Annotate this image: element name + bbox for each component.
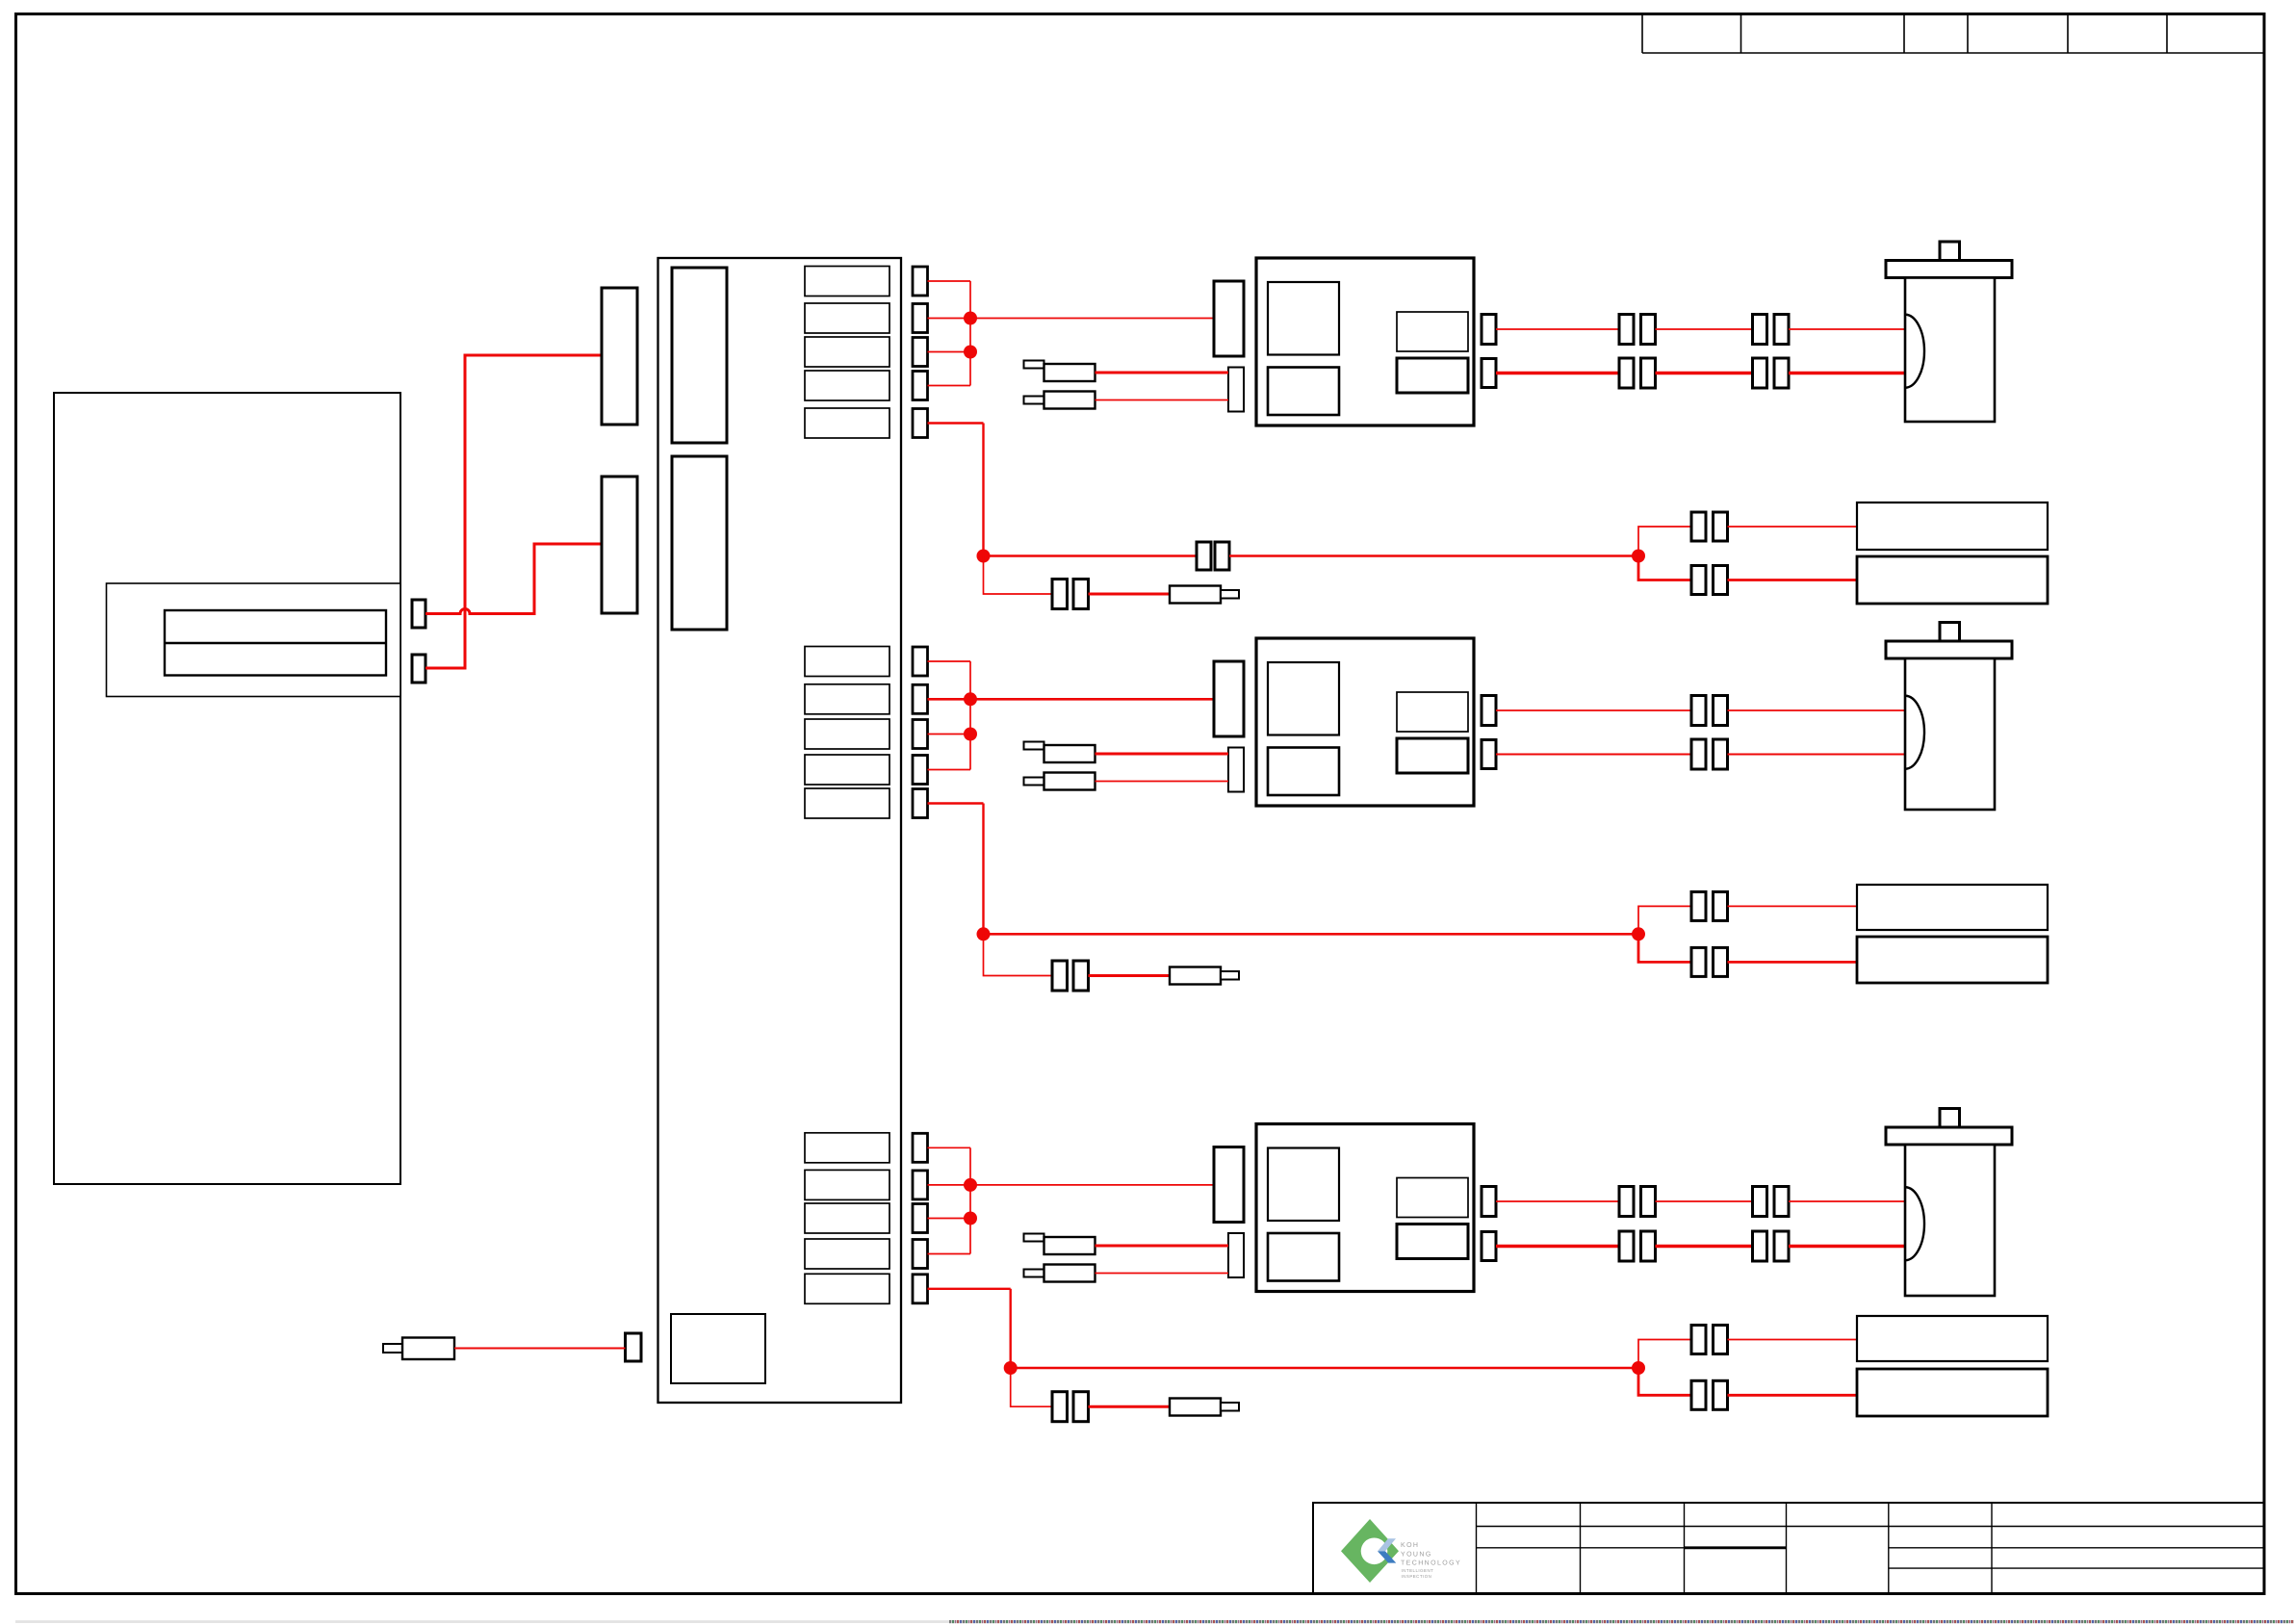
- G1 sensor branch down: [1638, 556, 1691, 580]
- G3 service plug tab: [1221, 1403, 1239, 1411]
- G3 driver relay block A: [1268, 1148, 1339, 1222]
- G3 plug P2 tab: [1024, 1270, 1044, 1277]
- G1 vertical bus: [969, 281, 971, 386]
- G2 plug P1 body: [1044, 745, 1095, 762]
- G3 board edge pin 5: [913, 1275, 928, 1303]
- G2 inline connector pair1b (wire2): [1714, 739, 1728, 769]
- G1 inline connector pair1a (wire2): [1619, 358, 1634, 388]
- G2 driver output pin OUT2: [1482, 740, 1496, 769]
- G1 wire to sensor S1: [1728, 526, 1858, 528]
- G3 plug branch inline connector b: [1073, 1392, 1089, 1422]
- G2 wire pin4 to bus: [928, 769, 971, 771]
- I/O board aux module: [671, 1314, 765, 1383]
- G3 inline connector pair2b (wire2): [1774, 1231, 1789, 1261]
- G1 inline connector pair2b (wire1): [1774, 315, 1789, 345]
- G2 wire pin2 to bus: [928, 698, 971, 701]
- G1 sensor junction right: [1632, 550, 1645, 563]
- G2 driver output block A: [1397, 692, 1468, 732]
- G2 inline connector pair1a (wire2): [1691, 739, 1706, 769]
- G3 wire pin5 drop to sensor bus: [1009, 1289, 1011, 1368]
- G2 plug P2 body: [1044, 773, 1095, 790]
- G2 bus to driver connector CN1: [970, 698, 1214, 701]
- G1 driver output pin OUT1: [1482, 315, 1496, 345]
- G2 plug branch inline connector b: [1073, 961, 1089, 991]
- G3 motor M3 shaft stub: [1940, 1109, 1960, 1128]
- G1 motor driver unit: [1256, 258, 1474, 425]
- G1 sensor upper inline connector a: [1691, 512, 1706, 541]
- G3 bus to driver connector CN1: [970, 1184, 1214, 1186]
- G1 inline connector pair2b (wire2): [1774, 358, 1789, 388]
- wire net-B from J2 to power inlet U-A: [425, 355, 602, 668]
- G2 inline connector pair1b (wire1): [1714, 696, 1728, 726]
- G2 sensor bus: [984, 933, 1639, 936]
- G3 sensor junction left: [1004, 1361, 1018, 1375]
- G3 plug P1 body: [1044, 1237, 1095, 1254]
- G1 plug P1 tab: [1024, 361, 1044, 369]
- G2 inline connector pair1a (wire1): [1691, 696, 1706, 726]
- G3 motor wire2 segment 2: [1656, 1245, 1753, 1248]
- G1 sensor S2: [1857, 556, 2048, 604]
- G3 sensor bus: [1011, 1367, 1638, 1370]
- G2 junction node at pin3: [964, 728, 977, 741]
- Koh Young logo text: [1401, 1542, 1461, 1579]
- G1 service plug body: [1170, 586, 1221, 604]
- plug P0 tab: [383, 1344, 402, 1353]
- G1 I/O channel label box 3: [805, 337, 889, 367]
- power inlet module U-B: [602, 477, 637, 613]
- G2 motor wire1 final segment: [1728, 709, 1906, 711]
- G3 vertical bus: [969, 1147, 971, 1253]
- G1 driver output block A: [1397, 312, 1468, 351]
- G2 sensor branch up: [1638, 906, 1691, 934]
- G3 sensor upper inline connector b: [1714, 1326, 1728, 1354]
- connector J3 on I/O board left edge: [626, 1333, 642, 1361]
- title strip table top-right: [1642, 14, 2263, 54]
- G3 wire pin3 to bus: [928, 1218, 971, 1220]
- bottom fine-print strip (illegible): [15, 1620, 2294, 1623]
- svg-text:KOH: KOH: [1401, 1542, 1419, 1549]
- svg-text:YOUNG: YOUNG: [1401, 1551, 1432, 1558]
- G2 driver output block B: [1397, 738, 1468, 773]
- G2 junction node at pin2: [964, 692, 977, 706]
- G1 driver input connector CN2: [1228, 368, 1244, 412]
- G2 wire pin5 drop to sensor bus: [982, 804, 984, 935]
- G1 sensor branch up: [1638, 527, 1691, 556]
- G2 driver output pin OUT1: [1482, 696, 1496, 726]
- control PC enclosure: [54, 393, 400, 1184]
- G3 sensor plug branch: [1011, 1368, 1052, 1406]
- G2 sensor junction right: [1632, 927, 1645, 941]
- G2 sensor junction left: [977, 927, 991, 941]
- G3 sensor S5: [1857, 1316, 2048, 1361]
- G3 sensor branch up: [1638, 1340, 1691, 1369]
- G1 sensor bus right segment: [1229, 554, 1638, 557]
- G3 board edge pin 2: [913, 1171, 928, 1199]
- G3 motor M3 cable boss arc: [1905, 1187, 1924, 1260]
- G2 motor M2 mounting flange: [1886, 641, 2012, 658]
- G3 wire pin5 out: [928, 1288, 1011, 1290]
- G3 motor driver unit: [1256, 1124, 1474, 1292]
- G1 sensor plug branch: [984, 556, 1053, 595]
- G1 driver input connector CN1: [1214, 281, 1244, 356]
- G1 wire plug P2 to CN2 (thin): [1095, 400, 1229, 401]
- G1 inline connector pair2a (wire1): [1753, 315, 1767, 345]
- G1 wire to service plug: [1089, 593, 1171, 596]
- G2 I/O channel label box 1: [805, 647, 889, 677]
- G3 sensor lower inline connector a: [1691, 1380, 1706, 1409]
- G3 plug P1 tab: [1024, 1234, 1044, 1242]
- G3 I/O channel label box 3: [805, 1203, 889, 1233]
- G1 motor wire1 final segment: [1789, 328, 1905, 330]
- G2 I/O channel label box 5: [805, 788, 889, 818]
- G1 driver output block B: [1397, 358, 1468, 393]
- wire net-A from J1 to power inlet U-B (hop over net-B): [425, 544, 602, 614]
- G3 motor M3 body: [1905, 1145, 1995, 1296]
- G2 wire plug P1 to CN2 (thick): [1095, 753, 1229, 756]
- G3 I/O channel label box 1: [805, 1133, 889, 1163]
- G1 driver relay block A: [1268, 282, 1339, 355]
- G2 sensor upper inline connector b: [1714, 891, 1728, 920]
- G1 plug branch inline connector a: [1052, 580, 1068, 609]
- G1 board edge pin 1: [913, 267, 928, 296]
- G1 board edge pin 4: [913, 372, 928, 400]
- G1 service plug tab: [1221, 590, 1239, 599]
- G1 plug P1 body: [1044, 364, 1095, 381]
- G2 motor M2 shaft stub: [1940, 623, 1960, 642]
- G2 motor wire2 segment 1: [1496, 754, 1691, 756]
- G2 motor wire1 segment 1: [1496, 709, 1691, 711]
- G1 wire pin5 drop to sensor bus: [982, 424, 984, 556]
- G1 I/O channel label box 1: [805, 267, 889, 296]
- G3 motor wire2 final segment: [1789, 1245, 1905, 1248]
- G3 motor M3 mounting flange: [1886, 1127, 2012, 1145]
- G3 sensor junction right: [1632, 1361, 1645, 1375]
- G1 inline connector pair1b (wire2): [1641, 358, 1656, 388]
- G3 driver output pin OUT2: [1482, 1232, 1496, 1261]
- G3 inline connector pair2a (wire2): [1753, 1231, 1767, 1261]
- G3 inline connector pair1a (wire1): [1619, 1187, 1634, 1217]
- G1 driver output pin OUT2: [1482, 359, 1496, 388]
- G2 I/O channel label box 2: [805, 684, 889, 714]
- G1 sensor S1: [1857, 503, 2048, 550]
- G2 motor M2 body: [1905, 658, 1995, 810]
- G1 plug branch inline connector b: [1073, 580, 1089, 609]
- power inlet module U-A: [602, 288, 637, 425]
- G3 wire plug P1 to CN2 (thick): [1095, 1245, 1229, 1248]
- G1 sensor bus inline connector b: [1215, 542, 1229, 570]
- G1 inline connector pair1a (wire1): [1619, 315, 1634, 345]
- G3 driver input connector CN2: [1228, 1233, 1244, 1277]
- G2 wire to service plug: [1089, 974, 1171, 977]
- front panel cutout: [107, 583, 401, 697]
- G3 sensor S6: [1857, 1369, 2048, 1416]
- display slot divider: [165, 642, 386, 644]
- display slot (two bays): [165, 610, 386, 676]
- G1 junction node at pin3: [964, 346, 977, 359]
- G1 board edge pin 2: [913, 304, 928, 333]
- G2 driver input connector CN2: [1228, 748, 1244, 792]
- G1 I/O channel label box 2: [805, 303, 889, 333]
- G3 wire pin2 to bus: [928, 1184, 971, 1186]
- title block table: [1313, 1503, 2264, 1594]
- G3 motor wire2 segment 1: [1496, 1245, 1619, 1248]
- G1 junction node at pin2: [964, 312, 977, 325]
- G2 motor M2 cable boss arc: [1905, 696, 1924, 769]
- G1 I/O channel label box 5: [805, 408, 889, 438]
- G2 service plug tab: [1221, 971, 1239, 980]
- G1 inline connector pair1b (wire1): [1641, 315, 1656, 345]
- G3 wire pin4 to bus: [928, 1253, 971, 1255]
- G2 wire to sensor S3: [1728, 905, 1858, 907]
- G1 motor M1 mounting flange: [1886, 261, 2012, 278]
- G1 wire pin2 to bus: [928, 318, 971, 320]
- G3 inline connector pair1b (wire2): [1641, 1231, 1656, 1261]
- G3 junction node at pin3: [964, 1212, 977, 1225]
- G2 motor wire2 final segment: [1728, 754, 1906, 756]
- G2 sensor upper inline connector a: [1691, 891, 1706, 920]
- G1 motor wire2 segment 2: [1656, 372, 1753, 374]
- G1 sensor upper inline connector b: [1714, 512, 1728, 541]
- G1 wire pin4 to bus: [928, 385, 971, 387]
- G3 driver input connector CN1: [1214, 1147, 1244, 1223]
- G3 I/O channel label box 4: [805, 1239, 889, 1269]
- G2 board edge pin 1: [913, 647, 928, 676]
- G2 sensor branch down: [1638, 934, 1691, 962]
- G3 plug P2 body: [1044, 1265, 1095, 1282]
- G2 I/O channel label box 3: [805, 719, 889, 749]
- G2 sensor S4: [1857, 937, 2048, 983]
- G1 plug P2 body: [1044, 392, 1095, 409]
- G2 motor driver unit: [1256, 638, 1474, 806]
- G2 wire plug P2 to CN2 (thin): [1095, 781, 1229, 783]
- G3 wire pin1 to bus: [928, 1147, 971, 1148]
- G3 motor wire1 segment 1: [1496, 1200, 1619, 1202]
- G1 motor wire1 segment 1: [1496, 328, 1619, 330]
- G3 driver output pin OUT1: [1482, 1187, 1496, 1217]
- G3 inline connector pair2b (wire1): [1774, 1187, 1789, 1217]
- connector J1 on PC: [412, 600, 425, 628]
- G2 I/O channel label box 4: [805, 755, 889, 785]
- G1 sensor bus inline connector a: [1197, 542, 1211, 570]
- G2 wire pin5 out: [928, 802, 984, 804]
- G3 I/O channel label box 2: [805, 1170, 889, 1199]
- I/O board power block PWR1: [672, 268, 727, 443]
- G3 driver output block A: [1397, 1178, 1468, 1218]
- G1 board edge pin 5: [913, 409, 928, 438]
- G1 wire pin5 out: [928, 422, 984, 424]
- G3 junction node at pin2: [964, 1178, 977, 1192]
- G2 wire pin1 to bus: [928, 660, 971, 662]
- G2 board edge pin 3: [913, 720, 928, 749]
- G1 wire pin1 to bus: [928, 280, 971, 282]
- G3 inline connector pair1a (wire2): [1619, 1231, 1634, 1261]
- G1 motor M1 cable boss arc: [1905, 315, 1924, 388]
- G2 service plug body: [1170, 967, 1221, 985]
- main I/O board: [658, 258, 902, 1403]
- G2 wire to sensor S4: [1728, 961, 1858, 964]
- G3 sensor branch down: [1638, 1368, 1691, 1395]
- G1 plug P2 tab: [1024, 397, 1044, 404]
- G2 sensor plug branch: [984, 934, 1053, 975]
- G3 wire to sensor S6: [1728, 1394, 1858, 1397]
- G1 motor wire2 final segment: [1789, 372, 1905, 374]
- G2 board edge pin 5: [913, 789, 928, 818]
- plug P0 body: [402, 1338, 454, 1360]
- G3 board edge pin 1: [913, 1133, 928, 1162]
- G3 inline connector pair2a (wire1): [1753, 1187, 1767, 1217]
- G2 sensor S3: [1857, 885, 2048, 930]
- G3 board edge pin 3: [913, 1204, 928, 1233]
- svg-text:TECHNOLOGY: TECHNOLOGY: [1401, 1560, 1461, 1567]
- G1 wire to sensor S2: [1728, 579, 1858, 581]
- G1 motor M1 body: [1905, 278, 1995, 423]
- G1 motor M1 shaft stub: [1940, 242, 1960, 261]
- G3 motor wire1 segment 2: [1656, 1200, 1753, 1202]
- G1 motor wire1 segment 2: [1656, 328, 1753, 330]
- svg-text:INSPECTION: INSPECTION: [1402, 1574, 1432, 1579]
- G2 board edge pin 4: [913, 756, 928, 785]
- G1 driver relay block B: [1268, 368, 1339, 416]
- G2 board edge pin 2: [913, 684, 928, 713]
- G2 plug P1 tab: [1024, 742, 1044, 750]
- G2 plug branch inline connector a: [1052, 961, 1068, 991]
- svg-text:INTELLIGENT: INTELLIGENT: [1402, 1568, 1434, 1573]
- G2 wire pin3 to bus: [928, 734, 971, 735]
- G1 wire pin3 to bus: [928, 351, 971, 353]
- G3 plug branch inline connector a: [1052, 1392, 1068, 1422]
- G1 inline connector pair2a (wire2): [1753, 358, 1767, 388]
- G1 sensor lower inline connector b: [1714, 566, 1728, 595]
- G2 vertical bus: [969, 661, 971, 770]
- G3 I/O channel label box 5: [805, 1274, 889, 1303]
- G1 I/O channel label box 4: [805, 371, 889, 400]
- G3 wire to service plug: [1089, 1405, 1171, 1408]
- wire from plug P0 to J3: [454, 1348, 626, 1350]
- connector J2 on PC: [412, 655, 425, 683]
- Koh Young logo mark: [1341, 1519, 1399, 1583]
- G2 driver relay block A: [1268, 662, 1339, 735]
- G3 driver output block B: [1397, 1224, 1468, 1259]
- G1 board edge pin 3: [913, 338, 928, 367]
- G3 motor wire1 final segment: [1789, 1200, 1905, 1202]
- G3 driver relay block B: [1268, 1233, 1339, 1281]
- G1 sensor lower inline connector a: [1691, 566, 1706, 595]
- G3 inline connector pair1b (wire1): [1641, 1187, 1656, 1217]
- G3 wire to sensor S5: [1728, 1339, 1858, 1341]
- G2 sensor lower inline connector a: [1691, 947, 1706, 976]
- G1 wire plug P1 to CN2 (thick): [1095, 372, 1229, 374]
- G3 board edge pin 4: [913, 1240, 928, 1269]
- G3 sensor lower inline connector b: [1714, 1380, 1728, 1409]
- G2 plug P2 tab: [1024, 778, 1044, 786]
- G1 motor wire2 segment 1: [1496, 372, 1619, 374]
- G2 driver relay block B: [1268, 748, 1339, 796]
- G2 driver input connector CN1: [1214, 661, 1244, 736]
- G3 wire plug P2 to CN2 (thin): [1095, 1273, 1229, 1275]
- G1 sensor junction left: [977, 550, 991, 563]
- G3 sensor upper inline connector a: [1691, 1326, 1706, 1354]
- G1 bus to driver connector CN1: [970, 318, 1214, 320]
- G3 service plug body: [1170, 1399, 1221, 1416]
- G1 sensor bus left segment: [984, 554, 1198, 557]
- G2 sensor lower inline connector b: [1714, 947, 1728, 976]
- I/O board power block PWR2: [672, 456, 727, 630]
